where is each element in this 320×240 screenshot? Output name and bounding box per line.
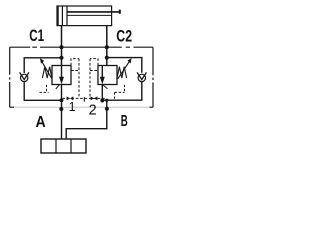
manifold boundary bottom faint line — [10, 106, 153, 108]
wire V2 outlet riser — [101, 85, 103, 101]
node C1 port dot on boundary — [59, 45, 63, 49]
wire port B down line — [66, 100, 107, 139]
V1 internal flow line — [61, 66, 63, 79]
V1 pilot dashed drop line — [78, 59, 80, 99]
V2 internal flow arrowhead — [100, 77, 105, 84]
cylinder cap end thick wall — [56, 6, 58, 26]
pilot arrow bowtie right — [91, 96, 98, 100]
node junction dot right valve outlet — [100, 99, 104, 103]
pilot cross line dashed — [63, 97, 107, 99]
wire C2 riser from cylinder to valve — [106, 26, 108, 66]
wire right check branch lower — [102, 82, 142, 101]
V2 pilot dashed side tap — [90, 70, 98, 72]
piston rod upper line — [67, 11, 121, 13]
check valve CV1 seat — [20, 72, 29, 79]
svg-text:1: 1 — [69, 100, 76, 114]
manifold boundary left chain line — [9, 47, 11, 107]
V2 adjustment arrow shaft — [118, 61, 130, 79]
node junction dot C2/check — [105, 56, 109, 60]
V1 drain dashed vertical — [46, 85, 48, 93]
V1 spring — [42, 67, 52, 78]
check valve CV2 seat — [137, 72, 146, 79]
piston line 2 — [66, 6, 68, 26]
svg-text:2: 2 — [89, 102, 97, 118]
wire V1 outlet riser — [61, 85, 63, 101]
pilot arrow bowtie left — [67, 96, 74, 100]
V1 pilot dashed hook corner — [71, 59, 79, 66]
V1 pilot dashed side tap — [71, 70, 79, 72]
node junction dot A line — [60, 98, 64, 102]
wire port A down line — [61, 100, 63, 139]
V1 internal flow arrowhead — [59, 77, 64, 84]
V1 adjustment arrow shaft — [42, 61, 52, 78]
svg-text:A: A — [36, 114, 46, 131]
manifold boundary bottom corner dark stubs — [10, 106, 153, 108]
V1 drain dashed horizontal — [40, 91, 49, 93]
counterbalance valve V1 envelope — [52, 66, 71, 85]
cylinder body — [57, 6, 112, 26]
V2 drain dashed vertical — [124, 85, 126, 93]
manifold boundary right chain line — [152, 47, 154, 107]
V2 internal pilot diagonal — [103, 85, 108, 89]
wire upper-right branch — [107, 58, 142, 73]
V1 adjustment arrowhead — [40, 58, 44, 63]
manifold boundary top chain line — [10, 46, 153, 48]
check valve CV1 ball — [21, 74, 28, 81]
check valve CV2 ball — [138, 74, 145, 81]
counterbalance valve V2 envelope — [98, 66, 117, 85]
svg-text:C1: C1 — [29, 27, 44, 45]
rod end tick — [119, 10, 121, 14]
directional valve body — [41, 139, 86, 153]
V2 internal flow line — [101, 66, 103, 79]
V2 drain dashed down leg — [114, 92, 116, 99]
V2 drain dashed horizontal — [115, 91, 125, 93]
wire left check branch lower — [24, 82, 61, 101]
V2 adjustment arrowhead — [127, 58, 131, 63]
V2 pilot dashed drop line — [89, 59, 91, 99]
V2 spring — [117, 67, 127, 78]
directional valve divider 2 — [70, 139, 72, 153]
node C2 port dot on boundary — [105, 45, 109, 49]
wire upper-left branch — [24, 58, 61, 73]
piston rod lower line — [67, 14, 112, 16]
node junction dot B takeoff — [105, 99, 108, 102]
svg-text:B: B — [121, 113, 128, 130]
pilot mid tick — [83, 97, 85, 102]
V2 pilot dashed hook corner — [90, 59, 98, 66]
svg-text:C2: C2 — [116, 28, 132, 46]
node junction dot C1/check — [60, 56, 64, 60]
V1 internal pilot diagonal — [56, 84, 60, 89]
piston line 1 — [61, 6, 63, 26]
directional valve divider 1 — [55, 139, 57, 153]
node B boundary crossing dot — [105, 107, 109, 111]
node A boundary crossing dot — [59, 107, 63, 111]
wire C1 riser from cylinder to valve — [61, 26, 63, 66]
